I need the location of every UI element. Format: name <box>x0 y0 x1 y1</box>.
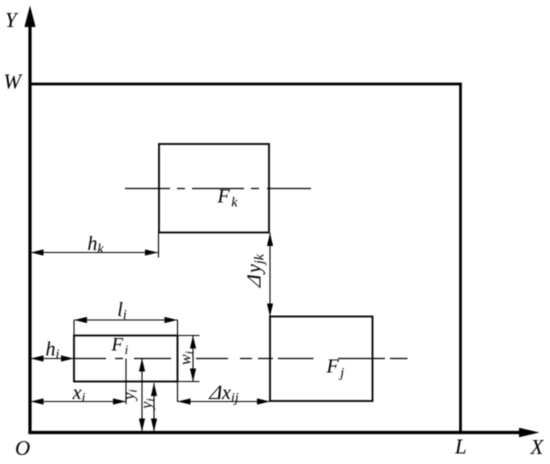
dimension x_i <box>31 359 127 407</box>
dimension dx_ij <box>178 382 271 406</box>
centerline of Fk <box>125 188 311 190</box>
svg-text:yjk: yjk <box>244 253 268 275</box>
rectangle Fk <box>159 144 269 233</box>
svg-text:Fi: Fi <box>111 335 129 358</box>
svg-text:yi: yi <box>121 389 140 401</box>
rectangle Fj <box>270 317 373 402</box>
dimension w_i <box>178 336 200 382</box>
svg-text:Δ: Δ <box>244 271 266 290</box>
Y axis <box>24 6 35 434</box>
rectangle Fi <box>74 336 178 382</box>
dimension h_i <box>31 339 75 363</box>
svg-text:O: O <box>15 436 30 460</box>
svg-text:W: W <box>4 70 24 94</box>
svg-text:hi: hi <box>46 339 60 363</box>
dimension y_i (to bottom edge) <box>139 383 158 432</box>
svg-text:hk: hk <box>87 233 104 257</box>
svg-text:Fk: Fk <box>217 186 239 211</box>
svg-text:yi: yi <box>139 398 158 410</box>
svg-text:Y: Y <box>5 8 19 32</box>
dimension y_i (to centerline) <box>121 359 145 432</box>
svg-text:X: X <box>530 435 545 459</box>
svg-text:xi: xi <box>72 382 86 406</box>
dimension dy_jk <box>244 233 274 317</box>
X axis <box>28 428 539 438</box>
centerline of Fi and Fj <box>75 358 408 360</box>
boundary top edge (W line) <box>30 83 462 86</box>
svg-text:L: L <box>454 435 467 459</box>
svg-text:wi: wi <box>178 351 197 365</box>
svg-text:li: li <box>117 299 127 323</box>
svg-text:xij: xij <box>221 382 239 406</box>
boundary right edge (L line) <box>459 83 462 433</box>
svg-text:Fj: Fj <box>326 356 345 382</box>
dimension l_i <box>74 299 178 402</box>
dimension h_k <box>31 233 159 258</box>
